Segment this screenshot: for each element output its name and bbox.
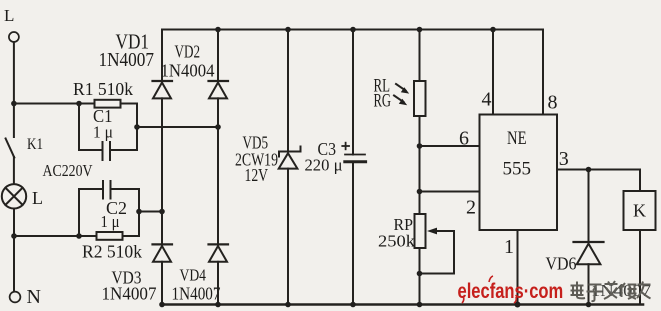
wire VD4 anode down to ground rail xyxy=(217,262,219,305)
svg-text:2: 2 xyxy=(466,197,476,219)
wire top rail down to photoresistor RL xyxy=(419,30,421,82)
junction VD4 on ground rail xyxy=(215,302,221,308)
wire 555 pin 1 down to ground rail xyxy=(517,230,519,305)
svg-text:4: 4 xyxy=(482,89,492,111)
wire R2C2 output to VD1 column xyxy=(139,211,162,213)
wire pin 3 node down to VD6 cathode xyxy=(588,170,590,243)
wire top rail down to 555 pin 8 xyxy=(542,30,544,115)
capacitor C2 xyxy=(103,181,111,199)
switch K1 blade xyxy=(6,139,15,158)
junction on VD1 column xyxy=(159,209,165,215)
wire C1 loop left vertical xyxy=(78,104,80,151)
RP wiper arrow xyxy=(427,228,454,235)
svg-text:12V: 12V xyxy=(245,165,269,185)
junction RL on top rail xyxy=(417,27,423,33)
junction VD6 on ground rail xyxy=(586,302,592,308)
svg-text:555: 555 xyxy=(503,159,532,180)
svg-text:RG: RG xyxy=(374,91,392,112)
op-amp timer U1 NE555 body xyxy=(480,115,558,231)
wire 555 pin 3 to relay column xyxy=(557,169,640,171)
wire node A down to switch K1 xyxy=(13,104,15,138)
wire RP bottom down to ground rail xyxy=(419,248,421,305)
terminal L xyxy=(9,32,19,42)
wire node B down to terminal N xyxy=(13,236,15,292)
wire RP wiper return to RP bottom xyxy=(420,273,455,275)
wire R1C1 output to VD2 column xyxy=(137,126,218,128)
junction R1C1 left node xyxy=(76,101,82,107)
photoresistor RL/RG xyxy=(414,81,426,116)
watermark gray chinese characters xyxy=(571,281,651,301)
zener diode VD5 xyxy=(279,147,301,169)
C3 polarity plus sign xyxy=(342,143,349,150)
wire lamp to node B xyxy=(13,209,15,237)
RL light arrow 1 xyxy=(396,84,409,94)
wire C3 negative plate down to ground rail xyxy=(352,162,354,305)
wire C1 loop bottom right xyxy=(110,149,137,151)
svg-text:8: 8 xyxy=(548,92,558,114)
junction VD5 on ground rail xyxy=(285,302,291,308)
resistor R1 xyxy=(95,100,121,108)
junction C2 right node xyxy=(136,209,142,215)
wire top rail down to VD2 cathode xyxy=(217,30,219,82)
diode VD6 xyxy=(574,242,604,264)
svg-text:1N4007: 1N4007 xyxy=(172,284,221,304)
svg-text:NE: NE xyxy=(507,128,527,149)
junction RP on ground rail xyxy=(417,302,423,308)
svg-text:VD2: VD2 xyxy=(175,42,201,62)
top supply rail xyxy=(162,29,543,31)
svg-text:elecfans·com: elecfans·com xyxy=(458,280,564,304)
wire top rail down to VD5 cathode xyxy=(287,30,289,152)
wire VD5 anode down to ground rail xyxy=(287,169,289,305)
wire VD2 anode down to VD4 cathode xyxy=(217,98,219,244)
svg-text:3: 3 xyxy=(559,148,569,170)
junction divider node to pin 6 xyxy=(417,143,423,149)
junction VD5 on top rail xyxy=(285,27,291,33)
svg-text:1N4004: 1N4004 xyxy=(161,61,215,81)
svg-text:K: K xyxy=(633,201,646,221)
junction on VD2 column xyxy=(215,124,221,130)
wire R2 right to C2 loop corner xyxy=(123,235,140,237)
bottom ground rail xyxy=(161,303,643,306)
watermark red mark 1 xyxy=(462,296,464,303)
diode VD1 xyxy=(153,81,173,98)
diode VD2 xyxy=(209,81,229,98)
capacitor C3 electrolytic xyxy=(345,155,366,162)
svg-text:K1: K1 xyxy=(27,136,43,153)
wire RP wiper right vertical down xyxy=(453,231,455,274)
wire RL bottom down to RP top xyxy=(419,116,421,214)
svg-text:N: N xyxy=(27,286,41,308)
wire C1 loop bottom left xyxy=(79,149,102,151)
wire R1 right to C1 loop corner xyxy=(121,103,138,105)
junction C1 right node xyxy=(134,124,140,130)
wire VD6 anode down to ground rail xyxy=(588,264,590,304)
svg-text:6: 6 xyxy=(459,128,469,150)
svg-text:1 μ: 1 μ xyxy=(101,212,120,231)
wire C2 loop top left xyxy=(79,188,103,190)
wire divider node to 555 pin 6 xyxy=(420,145,480,147)
junction VD6 on pin 3 wire xyxy=(586,167,592,173)
relay K body xyxy=(624,191,656,230)
resistor R2 xyxy=(97,232,123,240)
junction pin 4 on top rail xyxy=(490,27,496,33)
wire top rail down to 555 pin 4 xyxy=(492,30,494,115)
capacitor C1 xyxy=(103,142,111,160)
diode VD4 xyxy=(209,244,229,261)
junction C3 on top rail xyxy=(350,27,356,33)
wire VD3 anode down to ground rail xyxy=(161,262,163,305)
svg-text:L: L xyxy=(4,6,14,25)
junction R2C2 left node xyxy=(76,233,82,239)
svg-text:VD6: VD6 xyxy=(546,254,577,274)
wire L terminal down to node A xyxy=(13,42,15,103)
wire top rail down to VD1 cathode xyxy=(161,30,163,82)
svg-text:1: 1 xyxy=(504,236,514,258)
wire C2 loop right vertical xyxy=(138,189,140,236)
wire C1 loop right vertical xyxy=(136,104,138,151)
junction VD3 on ground rail xyxy=(159,302,165,308)
wire C2 loop top right xyxy=(111,188,139,190)
junction node B xyxy=(11,233,17,239)
wire node A to R1 left xyxy=(14,103,95,105)
junction node A xyxy=(11,101,17,107)
junction divider node to pin 2 xyxy=(417,189,423,195)
junction pin 1 on ground rail xyxy=(515,302,521,308)
svg-text:1N4007: 1N4007 xyxy=(102,284,157,304)
wire node B to R2 left xyxy=(14,235,97,237)
junction RP bottom wiper tie xyxy=(417,271,423,277)
RL light arrow 2 xyxy=(394,96,407,106)
wire top rail down to C3 positive plate xyxy=(352,30,354,155)
wire VD1 anode down to VD3 cathode xyxy=(161,98,163,244)
svg-text:R2 510k: R2 510k xyxy=(82,242,142,262)
junction VD2 on top rail xyxy=(215,27,221,33)
lamp L xyxy=(2,184,26,208)
svg-text:VD4: VD4 xyxy=(180,266,207,285)
watermark red mark 2 xyxy=(489,276,493,282)
wire C2 loop left vertical xyxy=(78,189,80,236)
wire divider node to 555 pin 2 xyxy=(420,191,480,193)
svg-text:R1 510k: R1 510k xyxy=(73,79,133,99)
svg-text:250k: 250k xyxy=(378,232,416,251)
wire relay K down to ground rail xyxy=(639,230,641,305)
diode VD3 xyxy=(153,244,173,261)
svg-text:220 μ: 220 μ xyxy=(305,156,343,175)
terminal N xyxy=(10,292,21,303)
wire pin 3 corner down to relay K xyxy=(639,170,641,192)
watermark red mark 3 xyxy=(514,297,516,303)
junction C3 on ground rail xyxy=(350,302,356,308)
svg-text:AC220V: AC220V xyxy=(43,161,93,180)
svg-text:L: L xyxy=(32,188,43,208)
wire switch K1 to lamp L xyxy=(13,157,15,184)
potentiometer RP body xyxy=(415,214,426,248)
svg-text:1N4007: 1N4007 xyxy=(99,50,155,71)
svg-text:1 μ: 1 μ xyxy=(93,123,113,142)
